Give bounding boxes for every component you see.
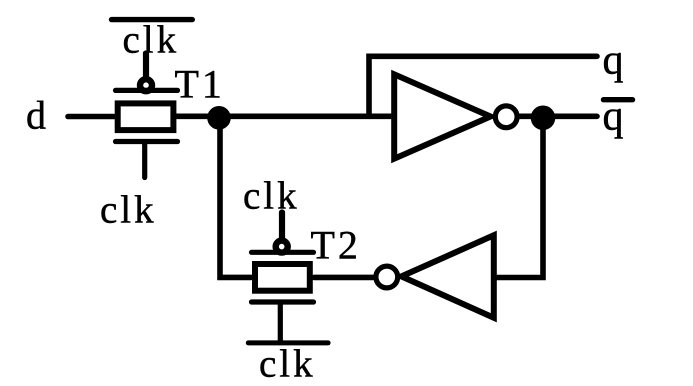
T1 clkbar overbar bbox=[112, 17, 193, 22]
T2 bottom gate stub bbox=[278, 305, 283, 341]
wire feedback riser to q bbox=[369, 56, 597, 116]
T1 body box bbox=[118, 103, 174, 130]
T1 bottom gate stub bbox=[142, 144, 147, 178]
T2 clkbar overbar (bottom) bbox=[248, 340, 328, 345]
wire node A down to T2 input bbox=[220, 117, 251, 277]
T1 bottom gate plate bbox=[116, 139, 178, 144]
svg-text:clk: clk bbox=[259, 343, 316, 386]
wire d input bbox=[68, 114, 114, 120]
svg-text:T2: T2 bbox=[311, 223, 361, 268]
wire T1 output to inverter U1 input bbox=[176, 114, 392, 120]
inverter U2 bbox=[376, 235, 494, 317]
T2 pmos bubble bbox=[276, 241, 288, 253]
wire U1 output to qbar bbox=[519, 114, 597, 120]
T2 bottom gate plate bbox=[252, 299, 314, 304]
T1 top gate stub bbox=[143, 54, 149, 81]
inverter U1 bbox=[394, 74, 517, 158]
wire qbar node down to U2 input bbox=[496, 117, 543, 278]
transmission gate T1 bbox=[112, 20, 193, 178]
svg-text:q: q bbox=[603, 94, 624, 140]
T2 top gate stub bbox=[279, 213, 285, 242]
qbar overbar bbox=[604, 97, 633, 102]
svg-text:clk: clk bbox=[100, 189, 157, 232]
svg-text:d: d bbox=[26, 93, 46, 138]
wire U2 output to T2 bbox=[314, 275, 373, 281]
svg-text:clk: clk bbox=[123, 19, 180, 62]
svg-text:q: q bbox=[603, 38, 624, 84]
svg-text:clk: clk bbox=[243, 175, 300, 218]
node qbar junction dot bbox=[531, 106, 556, 131]
U1 output bubble bbox=[495, 106, 517, 128]
svg-text:T1: T1 bbox=[175, 62, 225, 107]
transmission gate T2 bbox=[248, 213, 328, 343]
U2 output bubble bbox=[376, 266, 398, 288]
T1 pmos bubble bbox=[140, 79, 152, 91]
T1 top gate plate bbox=[116, 88, 178, 93]
node A junction dot bbox=[207, 106, 231, 130]
T2 top gate plate bbox=[252, 250, 314, 255]
T2 body box bbox=[255, 264, 310, 291]
